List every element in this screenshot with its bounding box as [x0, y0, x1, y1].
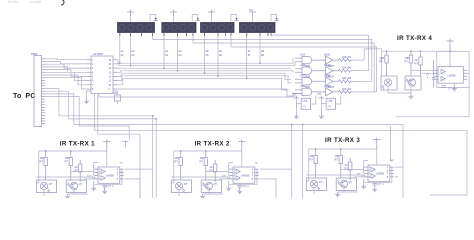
resistor R12: [405, 51, 413, 76]
wires U1 bottom to bus: [95, 94, 98, 135]
svg-text:Vcc: Vcc: [249, 8, 254, 12]
op-amp U6 outer loop: [437, 51, 469, 87]
display pin stubs dark: [120, 33, 271, 37]
svg-text:LM324: LM324: [327, 65, 335, 68]
ground IR4 left: [409, 94, 414, 99]
svg-text:R?: R?: [415, 62, 419, 66]
capacitor C4a: [426, 60, 435, 88]
resistor loop RP4: [271, 14, 279, 21]
gate U2C: [295, 74, 316, 85]
svg-text:7408: 7408: [305, 65, 311, 68]
resistor R7: [337, 71, 372, 83]
svg-text:numtir: numtir: [30, 0, 42, 4]
junction dots lower bus: [152, 115, 304, 126]
display DS1 pins: [120, 33, 153, 66]
power VCC display 3: [208, 10, 215, 23]
power VCC U4: [292, 92, 299, 99]
svg-text:R?: R?: [380, 60, 384, 64]
display DS2: [162, 23, 196, 33]
svg-text:IR TX-RX 3: IR TX-RX 3: [325, 137, 360, 144]
net labels DS3: [206, 49, 223, 57]
resistor R5: [337, 49, 365, 62]
IR LED D4: [381, 76, 397, 90]
display DS4: [240, 23, 276, 33]
svg-text:Vcc: Vcc: [292, 92, 297, 96]
svg-text:To PC: To PC: [13, 93, 36, 100]
wires IR2 to bus: [260, 169, 292, 198]
resistor R8: [337, 82, 377, 94]
display DS4 pins: [247, 33, 271, 79]
junction dot vcc rail: [449, 50, 451, 52]
svg-text:LM324: LM324: [327, 76, 335, 79]
svg-text:U?A: U?A: [303, 100, 308, 103]
latch U5: [321, 96, 340, 114]
wires IR1 to bus: [125, 169, 153, 198]
svg-text:10K: 10K: [380, 56, 385, 60]
caption glyph fragment: [61, 0, 64, 5]
wires LED bottoms IR4: [388, 86, 411, 94]
wire bus loop top-right: [153, 35, 382, 92]
svg-text:IR TX-RX 2: IR TX-RX 2: [195, 140, 230, 147]
power VCC IR4: [447, 39, 454, 52]
svg-text:U3A1: U3A1: [324, 53, 331, 57]
gate bottom part labels: [305, 65, 335, 89]
resistor loop RP2: [192, 14, 200, 21]
svg-text:7408: 7408: [305, 76, 311, 79]
ground U5: [319, 114, 324, 119]
svg-text:7408: 7408: [305, 86, 311, 89]
svg-text:U2A: U2A: [300, 53, 305, 57]
net labels DS4: [248, 49, 265, 57]
net labels DS2: [165, 49, 182, 57]
block IR3: [306, 137, 394, 196]
display DS2 pins: [164, 33, 193, 71]
gate U2A: [295, 53, 316, 64]
svg-text:Vcc: Vcc: [317, 92, 322, 96]
power VCC display 1: [127, 10, 134, 23]
bus lower horizontals: [59, 116, 467, 198]
enclosing wire rectangle IR4: [382, 51, 470, 117]
VCC stem into U6: [449, 51, 451, 66]
ground at U1: [84, 91, 91, 104]
capacitor C5 at U1 bottom: [113, 91, 121, 104]
power VCC display 4: [249, 8, 256, 23]
gate U2B: [295, 63, 316, 74]
svg-text:C5: C5: [114, 91, 118, 95]
wires connector to U1: [45, 59, 87, 89]
wires resistor taps to U6: [411, 70, 434, 73]
display DS3: [201, 23, 235, 33]
wires IR3 to bus: [395, 167, 403, 177]
power VCC display 2: [170, 10, 177, 23]
latch U4: [296, 96, 315, 114]
resistor R13: [415, 53, 423, 76]
svg-text:10K: 10K: [405, 56, 410, 60]
block IR1: [36, 139, 124, 198]
op-amp U6: [434, 67, 467, 84]
ground under U6: [452, 83, 457, 91]
resistor loop RP1: [150, 14, 158, 21]
connector J1: [34, 56, 45, 127]
buffer U3A: [316, 53, 337, 65]
junction dots on bus: [119, 62, 261, 79]
top rail IR4: [382, 50, 457, 52]
svg-text:LM358: LM358: [448, 74, 456, 78]
resistor loop RP3: [231, 14, 239, 21]
block IR2: [171, 139, 258, 198]
svg-text:LM324: LM324: [327, 86, 335, 89]
output wire U6 right: [467, 72, 469, 74]
svg-text:IR TX-RX 1: IR TX-RX 1: [60, 140, 95, 147]
IC U1: [87, 56, 117, 94]
capacitor C4b + ground: [442, 86, 455, 91]
photo transistor Q4: [405, 76, 421, 90]
gate U2D: [295, 84, 316, 95]
net labels DS1: [121, 49, 135, 57]
display DS3 pins: [205, 33, 232, 76]
power VCC tap near IR1: [122, 141, 128, 147]
resistor R11: [380, 51, 389, 76]
buffer U3D: [316, 84, 337, 96]
buffer U3C: [316, 74, 337, 86]
vertical feeds down right side: [369, 61, 394, 160]
resistor R6: [337, 61, 369, 73]
svg-text:ini ilm: ini ilm: [8, 0, 19, 4]
wires connector lower to bottom bus: [45, 89, 79, 127]
svg-text:1K: 1K: [415, 58, 418, 62]
buffer U3B: [316, 63, 337, 75]
display DS1: [118, 23, 155, 33]
power VCC U5: [317, 92, 324, 99]
svg-text:U?B: U?B: [328, 100, 333, 103]
bus U1 to gates: [99, 58, 302, 97]
svg-text:U1 8250: U1 8250: [93, 52, 103, 56]
faint cropped caption text at top: [8, 0, 42, 4]
ground U4: [294, 114, 299, 119]
svg-text:IR TX-RX 4: IR TX-RX 4: [397, 35, 432, 42]
svg-text:R?: R?: [405, 60, 409, 64]
